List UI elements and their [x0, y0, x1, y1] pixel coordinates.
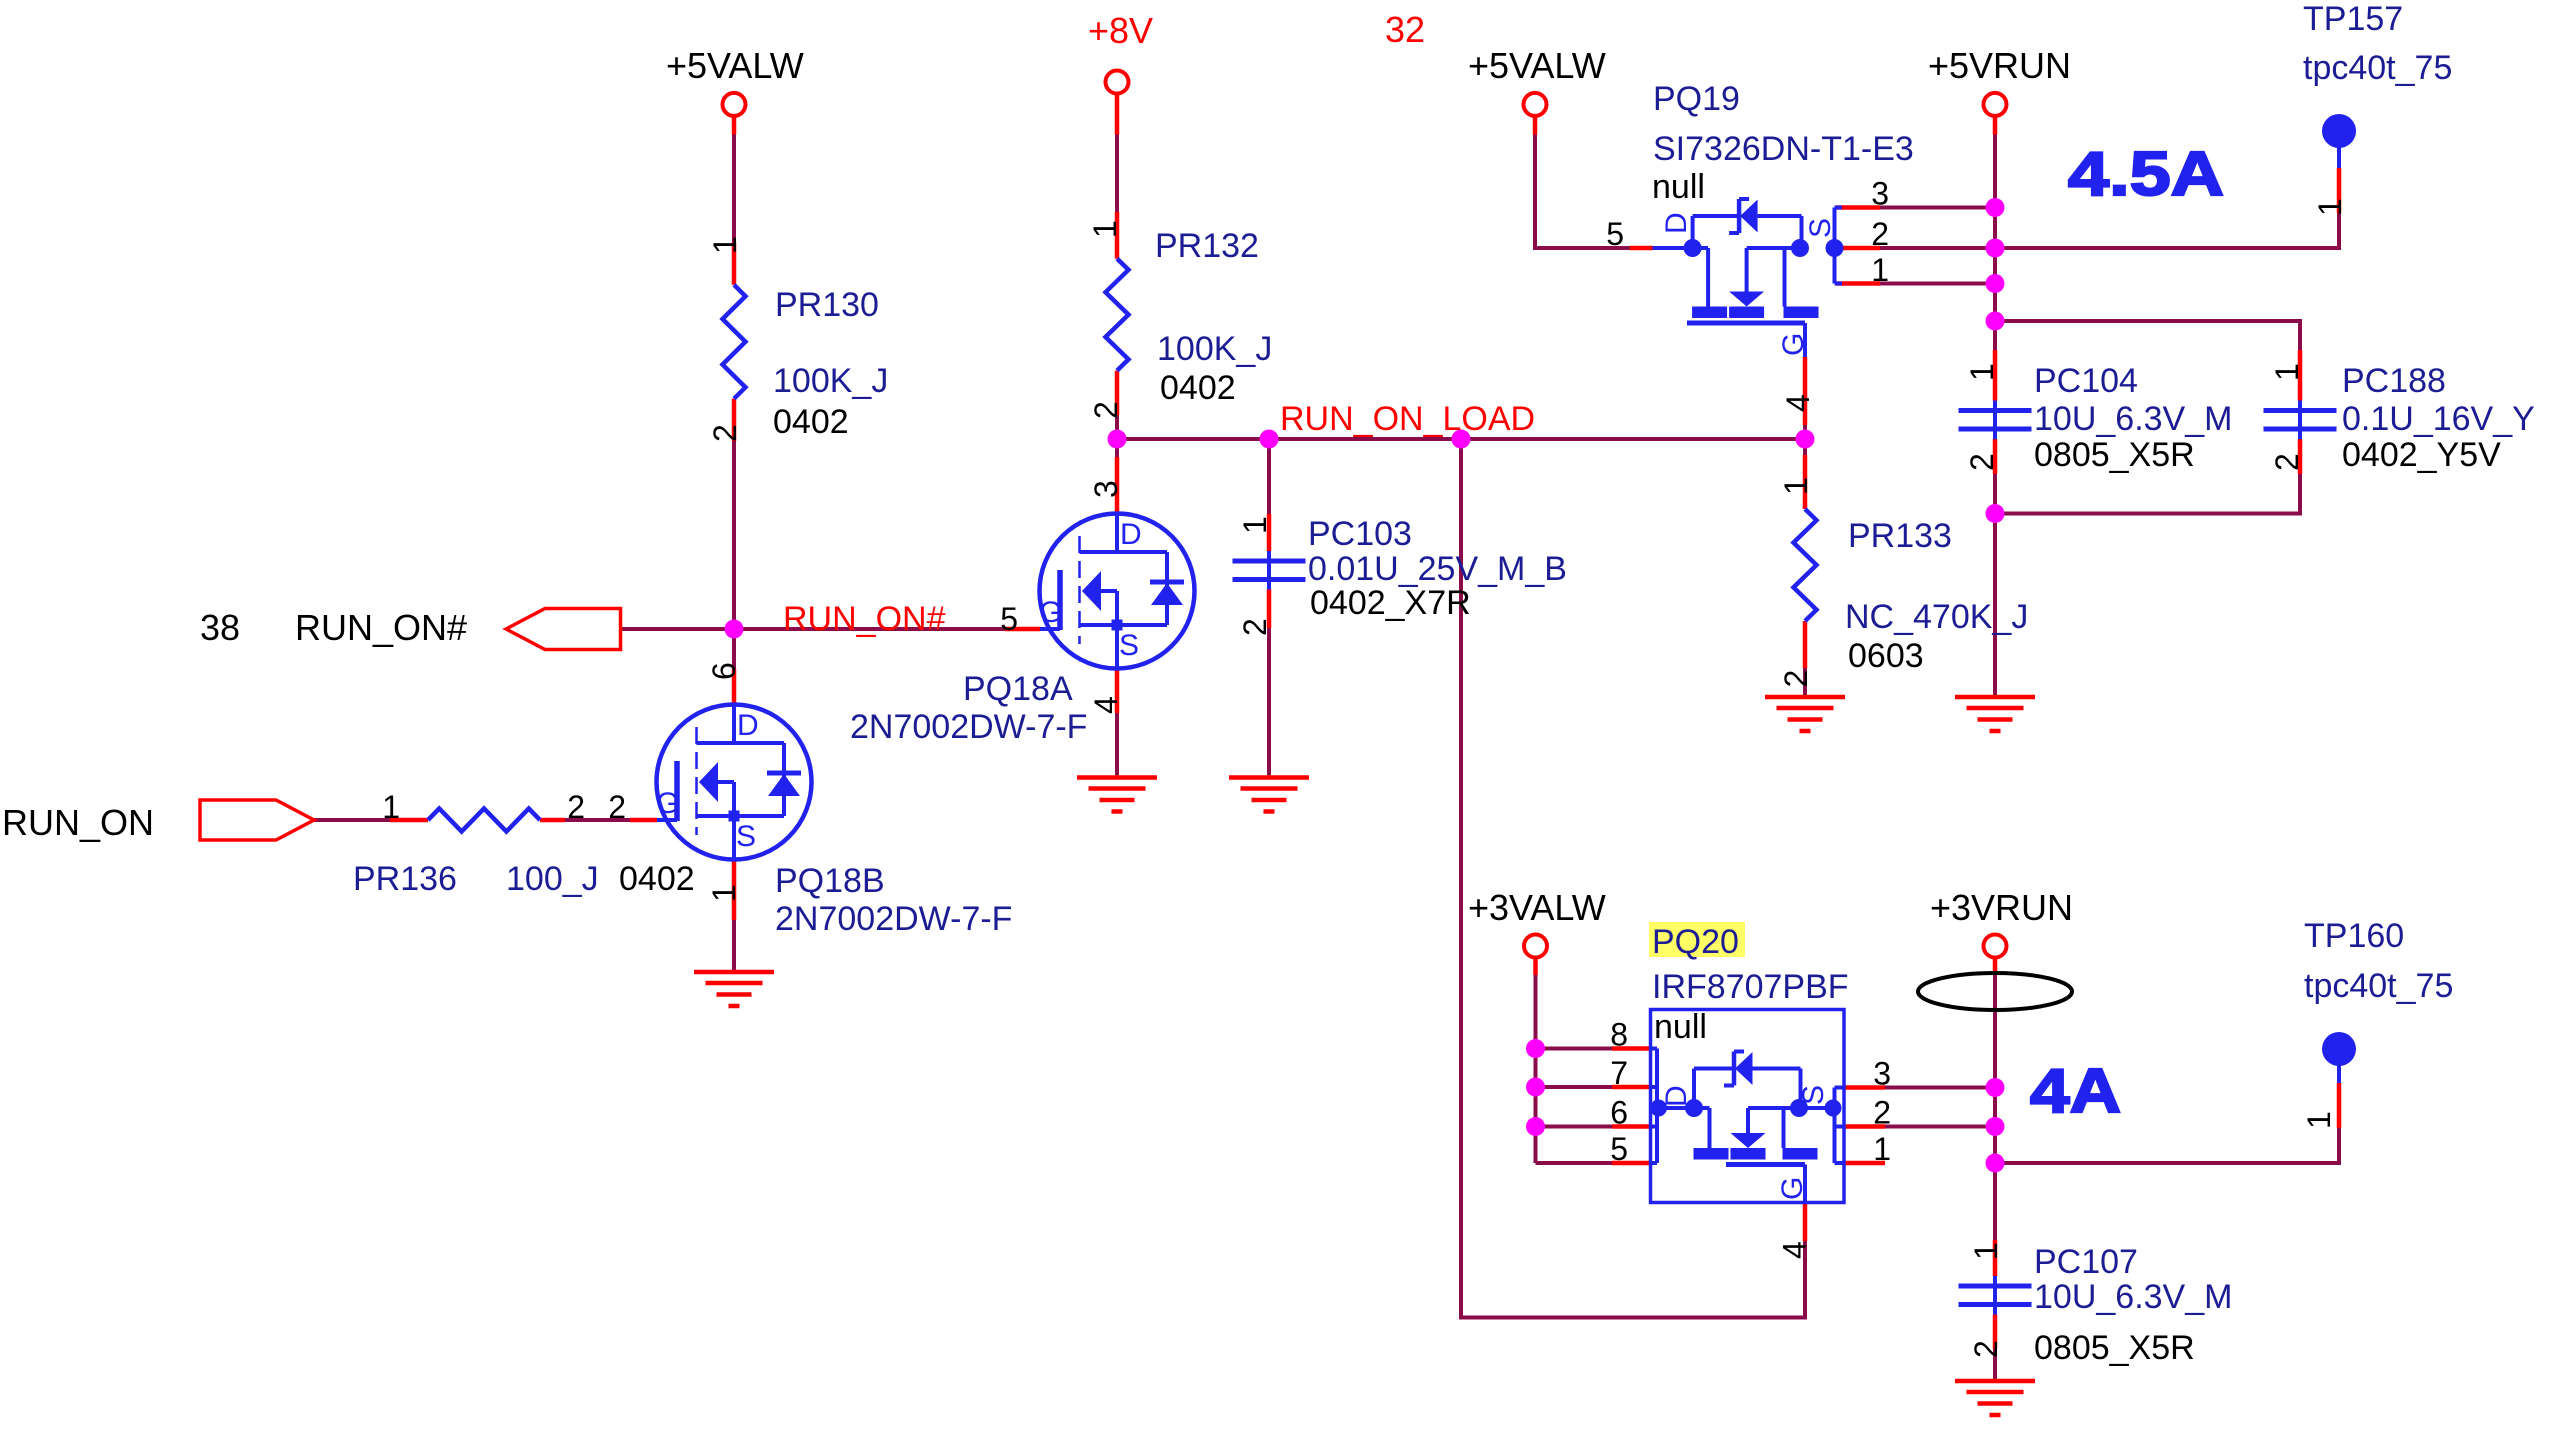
svg-text:2: 2 [1778, 670, 1814, 688]
svg-text:IRF8707PBF: IRF8707PBF [1652, 968, 1849, 1006]
svg-text:tpc40t_75: tpc40t_75 [2304, 967, 2453, 1005]
svg-text:5: 5 [1000, 601, 1018, 637]
svg-text:1: 1 [707, 236, 743, 254]
svg-text:+8V: +8V [1088, 10, 1153, 51]
svg-text:NC_470K_J: NC_470K_J [1845, 598, 2028, 636]
svg-text:SI7326DN-T1-E3: SI7326DN-T1-E3 [1653, 130, 1914, 168]
svg-text:8: 8 [1610, 1017, 1628, 1053]
svg-text:+5VALW: +5VALW [1468, 45, 1606, 86]
svg-text:0402_X7R: 0402_X7R [1310, 584, 1471, 622]
svg-text:4: 4 [1780, 394, 1816, 412]
svg-text:1: 1 [1087, 220, 1123, 238]
svg-text:1: 1 [1964, 363, 2000, 381]
svg-text:PQ20: PQ20 [1652, 923, 1739, 961]
svg-text:TP157: TP157 [2303, 0, 2403, 38]
svg-text:1: 1 [1778, 477, 1814, 495]
svg-text:0.1U_16V_Y: 0.1U_16V_Y [2342, 400, 2535, 438]
svg-text:2: 2 [1088, 401, 1124, 419]
svg-text:5: 5 [1606, 216, 1624, 252]
svg-text:2: 2 [2269, 453, 2305, 471]
svg-text:0402: 0402 [1160, 369, 1236, 407]
svg-text:PC107: PC107 [2034, 1243, 2138, 1281]
svg-text:S: S [1804, 218, 1837, 238]
svg-text:PR132: PR132 [1155, 227, 1259, 265]
svg-text:4.5A: 4.5A [2068, 140, 2224, 209]
svg-text:D: D [1660, 212, 1693, 234]
svg-text:2: 2 [1871, 216, 1889, 252]
svg-text:100K_J: 100K_J [1157, 330, 1272, 368]
svg-text:PC104: PC104 [2034, 362, 2138, 400]
svg-text:+5VALW: +5VALW [666, 45, 804, 86]
svg-text:2: 2 [1968, 1340, 2004, 1358]
svg-text:0402_Y5V: 0402_Y5V [2342, 436, 2501, 474]
svg-text:null: null [1652, 168, 1705, 206]
svg-text:G: G [1776, 1177, 1809, 1200]
svg-text:38: 38 [200, 607, 240, 648]
svg-text:2: 2 [567, 789, 585, 825]
svg-text:7: 7 [1610, 1055, 1628, 1091]
svg-text:6: 6 [1610, 1095, 1628, 1131]
svg-text:0402: 0402 [773, 403, 849, 441]
svg-text:+5VRUN: +5VRUN [1928, 45, 2071, 86]
svg-text:0805_X5R: 0805_X5R [2034, 1329, 2195, 1367]
svg-text:G: G [1039, 596, 1062, 629]
svg-text:32: 32 [1385, 9, 1425, 50]
svg-text:PR136: PR136 [353, 860, 457, 898]
svg-text:RUN_ON#: RUN_ON# [783, 600, 946, 638]
svg-text:1: 1 [2269, 363, 2305, 381]
svg-text:6: 6 [706, 662, 742, 680]
svg-text:2: 2 [707, 424, 743, 442]
svg-text:2: 2 [1873, 1095, 1891, 1131]
svg-text:PQ19: PQ19 [1653, 80, 1740, 118]
svg-text:+3VRUN: +3VRUN [1930, 887, 2073, 928]
svg-text:1: 1 [382, 789, 400, 825]
svg-text:2: 2 [608, 789, 626, 825]
svg-text:PQ18B: PQ18B [775, 862, 885, 900]
svg-text:D: D [1660, 1085, 1693, 1107]
svg-text:G: G [1777, 333, 1810, 356]
svg-text:5: 5 [1610, 1131, 1628, 1167]
svg-text:RUN_ON_LOAD: RUN_ON_LOAD [1280, 400, 1535, 438]
svg-text:PR130: PR130 [775, 286, 879, 324]
svg-text:0805_X5R: 0805_X5R [2034, 436, 2195, 474]
svg-text:G: G [656, 787, 679, 820]
svg-text:2N7002DW-7-F: 2N7002DW-7-F [775, 900, 1012, 938]
svg-text:PR133: PR133 [1848, 517, 1952, 555]
svg-text:4A: 4A [2030, 1057, 2121, 1126]
svg-text:2: 2 [1964, 453, 2000, 471]
svg-text:2N7002DW-7-F: 2N7002DW-7-F [850, 708, 1087, 746]
svg-text:0402: 0402 [619, 860, 695, 898]
svg-text:100K_J: 100K_J [773, 362, 888, 400]
svg-text:PC103: PC103 [1308, 515, 1412, 553]
svg-text:0.01U_25V_M_B: 0.01U_25V_M_B [1308, 550, 1567, 588]
svg-text:1: 1 [1871, 252, 1889, 288]
svg-text:1: 1 [1873, 1131, 1891, 1167]
svg-text:TP160: TP160 [2304, 917, 2404, 955]
svg-text:PC188: PC188 [2342, 362, 2446, 400]
svg-text:RUN_ON#: RUN_ON# [295, 607, 467, 648]
svg-text:S: S [1119, 629, 1139, 662]
svg-text:1: 1 [1968, 1242, 2004, 1260]
svg-text:3: 3 [1873, 1056, 1891, 1092]
svg-text:1: 1 [2301, 1111, 2337, 1129]
svg-text:0603: 0603 [1848, 637, 1924, 675]
svg-text:2: 2 [1237, 618, 1273, 636]
svg-text:1: 1 [706, 884, 742, 902]
svg-text:S: S [736, 820, 756, 853]
svg-text:10U_6.3V_M: 10U_6.3V_M [2034, 1278, 2232, 1316]
svg-text:3: 3 [1871, 176, 1889, 212]
svg-text:S: S [1797, 1085, 1830, 1105]
svg-text:10U_6.3V_M: 10U_6.3V_M [2034, 400, 2232, 438]
svg-text:3: 3 [1088, 480, 1124, 498]
svg-text:1: 1 [2312, 198, 2348, 216]
svg-text:D: D [1120, 518, 1142, 551]
svg-text:PQ18A: PQ18A [963, 670, 1073, 708]
svg-text:1: 1 [1237, 516, 1273, 534]
svg-text:4: 4 [1088, 696, 1124, 714]
svg-text:+3VALW: +3VALW [1468, 887, 1606, 928]
svg-text:D: D [737, 709, 759, 742]
svg-text:RUN_ON: RUN_ON [2, 802, 154, 843]
svg-text:4: 4 [1777, 1241, 1813, 1259]
svg-text:tpc40t_75: tpc40t_75 [2303, 49, 2452, 87]
svg-text:null: null [1654, 1008, 1707, 1046]
svg-text:100_J: 100_J [506, 860, 599, 898]
